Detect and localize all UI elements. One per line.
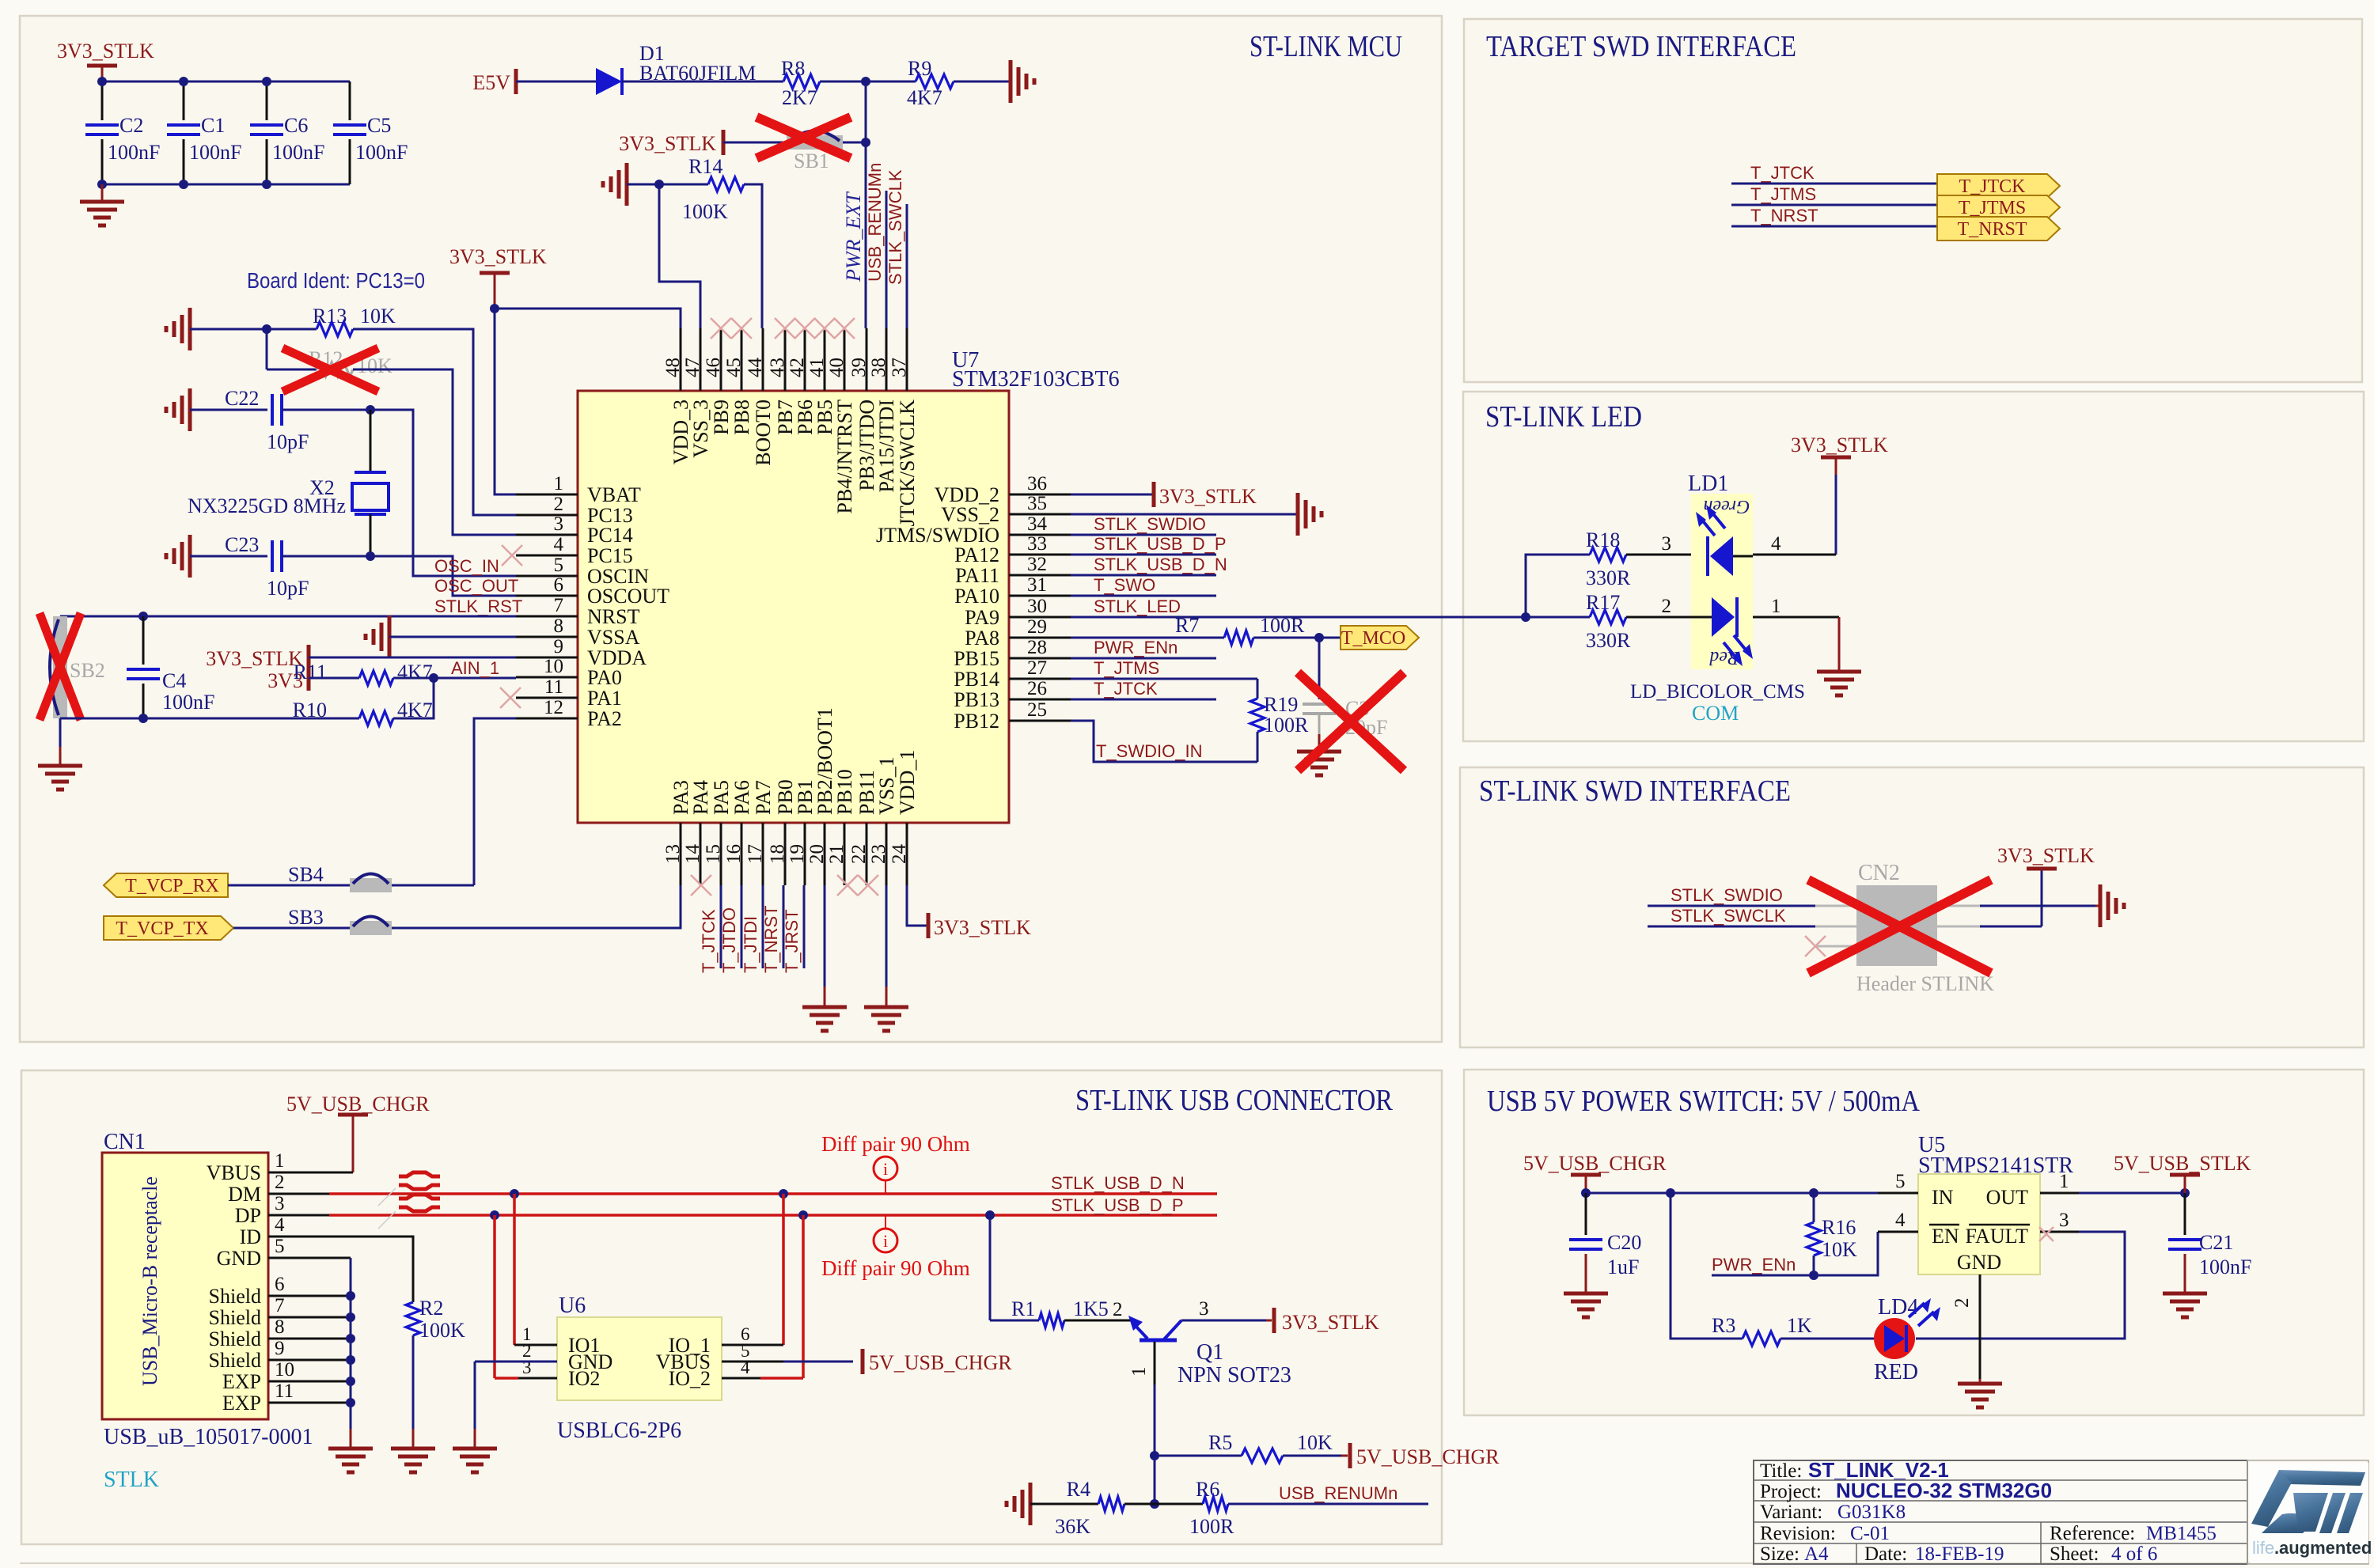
U7 pin 27 (PB14) right stub — [1009, 678, 1071, 680]
wire T_VCP_TX to SB3 — [233, 927, 350, 930]
power 3V3_STLK (LED) — [1821, 456, 1851, 460]
solder bridge SB1 (DNF) — [787, 135, 843, 150]
svg-text:24: 24 — [889, 844, 910, 865]
svg-text:330R: 330R — [1586, 629, 1631, 652]
svg-text:PWR_EXT: PWR_EXT — [842, 191, 865, 282]
wire ground to C22 — [190, 409, 267, 411]
node STLK_LED junction — [1521, 612, 1530, 622]
U6 pin3 stub — [518, 1377, 557, 1380]
power flag E5V — [514, 69, 518, 94]
svg-text:10: 10 — [544, 656, 563, 677]
svg-text:4: 4 — [275, 1214, 285, 1236]
svg-text:10K: 10K — [1297, 1431, 1333, 1454]
DNF cross over CN2 — [1808, 880, 1991, 973]
wire R14 to MCU pin 44 (BOOT0) — [744, 184, 762, 328]
node C4 top junction — [138, 612, 148, 621]
svg-text:27: 27 — [1027, 657, 1047, 679]
svg-text:STLK_USB_D_P: STLK_USB_D_P — [1051, 1195, 1184, 1215]
node R4/R6 junction — [1150, 1499, 1159, 1509]
svg-text:R11: R11 — [294, 661, 327, 684]
U7 pin 44 (BOOT0) top stub — [762, 328, 764, 391]
svg-text:11: 11 — [275, 1381, 294, 1402]
svg-text:43: 43 — [767, 358, 788, 377]
wire DM to U6 IO_1 — [782, 1194, 785, 1345]
svg-text:SB3: SB3 — [288, 906, 324, 929]
capacitor C1 100nF — [183, 81, 185, 120]
U7 pin 2 (PC13) left stub — [516, 514, 578, 517]
node R13/R12 junction — [262, 324, 271, 334]
svg-text:PC15: PC15 — [587, 544, 633, 567]
svg-text:EXP: EXP — [222, 1370, 261, 1393]
svg-text:20: 20 — [806, 844, 828, 864]
U7 pin 9 (VDDA) left stub — [516, 657, 578, 659]
power flag 3V3 — [307, 665, 311, 691]
svg-text:PB15: PB15 — [954, 647, 999, 670]
diff pair symbol on DP — [399, 1195, 440, 1211]
svg-text:10K: 10K — [1822, 1238, 1857, 1261]
section box: ST-LINK MCU — [20, 16, 1442, 1042]
svg-text:Reference:: Reference: — [2050, 1523, 2135, 1544]
wire+net label STLK_USB_D_N — [1071, 574, 1216, 577]
svg-text:FAULT: FAULT — [1966, 1225, 2029, 1248]
svg-text:2: 2 — [1951, 1298, 1973, 1309]
svg-text:R14: R14 — [688, 155, 722, 178]
svg-text:C1: C1 — [201, 114, 225, 137]
note Diff pair 90 Ohm (lower) — [885, 1215, 886, 1229]
svg-text:PA15/JTDI: PA15/JTDI — [875, 400, 898, 493]
svg-text:2: 2 — [1113, 1299, 1123, 1320]
svg-text:PB4/JNTRST: PB4/JNTRST — [833, 400, 856, 514]
wire PWR_ENn to U5 EN — [1712, 1232, 1878, 1275]
wire ground to R13 — [190, 328, 317, 331]
svg-text:35: 35 — [1027, 493, 1047, 514]
U7 pin 14 (PA4) bottom stub — [700, 823, 702, 885]
svg-text:7: 7 — [275, 1295, 285, 1316]
svg-text:NUCLEO-32 STM32G0: NUCLEO-32 STM32G0 — [1836, 1479, 2052, 1502]
wire C22 junction to MCU pin 5 (OSCIN) — [370, 410, 516, 576]
svg-text:18-FEB-19: 18-FEB-19 — [1915, 1543, 2004, 1565]
U7 pin 7 (NRST) left stub — [516, 615, 578, 618]
CN1 shield/EXP stub y=1746 — [268, 1381, 351, 1383]
svg-text:3V3_STLK: 3V3_STLK — [1159, 485, 1257, 508]
LED LD1 green diode (points left) — [1710, 536, 1733, 576]
wire R6 to USB_RENUMn — [1228, 1503, 1428, 1506]
svg-text:330R: 330R — [1586, 566, 1631, 589]
wire pin 30 STLK_LED to LED section — [1071, 616, 1590, 619]
svg-text:36: 36 — [1027, 473, 1047, 494]
svg-text:T_NRST: T_NRST — [1957, 219, 2027, 240]
svg-text:PA5: PA5 — [710, 780, 733, 815]
svg-text:46: 46 — [703, 358, 724, 377]
svg-text:10pF: 10pF — [267, 577, 309, 600]
capacitor C20 1uF — [1585, 1193, 1587, 1235]
svg-text:6: 6 — [554, 574, 564, 596]
wire pin 29 PA9 to R7 — [1071, 637, 1224, 639]
svg-text:GND: GND — [1957, 1251, 2001, 1274]
U7 pin 6 (OSCOUT) left stub — [516, 595, 578, 597]
node R14 left junction — [654, 180, 664, 189]
ground right of CN2 — [2099, 884, 2103, 927]
node R5 junction — [1150, 1451, 1159, 1460]
svg-text:36K: 36K — [1055, 1515, 1090, 1538]
wire R10 up to AIN_1 node — [393, 678, 434, 718]
svg-text:5V_USB_CHGR: 5V_USB_CHGR — [286, 1093, 430, 1115]
U7 pin 21 (PB10) bottom stub — [844, 823, 846, 885]
svg-text:39: 39 — [848, 358, 870, 377]
no-ERC mark pin 22 PB11 — [858, 875, 878, 896]
capacitor C4 100nF — [142, 616, 145, 665]
U7 pin 39 (PB3/JTDO) top stub — [866, 328, 868, 391]
svg-text:7: 7 — [554, 595, 564, 616]
svg-text:T_SWO: T_SWO — [1094, 575, 1155, 595]
svg-text:100R: 100R — [1189, 1515, 1234, 1538]
node C4 bottom junction — [138, 714, 148, 723]
U7 pin 33 (PA12) right stub — [1009, 554, 1071, 556]
page bottom frame line — [20, 1562, 2368, 1564]
svg-text:30: 30 — [1027, 596, 1047, 617]
svg-text:GND: GND — [217, 1247, 261, 1270]
U7 pin 38 (PA15/JTDI) top stub — [886, 328, 888, 391]
resistor R6 100R — [1155, 1503, 1203, 1506]
CN2 unused stub — [1815, 945, 1856, 948]
DNF cross over SB2 — [40, 613, 81, 720]
svg-text:T_VCP_RX: T_VCP_RX — [125, 876, 219, 896]
wire pin 36 VDD_2 to 3V3_STLK — [1071, 494, 1154, 496]
U7 pin 17 (PA7) bottom stub — [762, 823, 764, 885]
wire STLK_SWCLK to CN2 — [1648, 926, 1815, 928]
no-ERC mark pin 14 PA4 — [691, 875, 711, 896]
U7 pin 48 (VDD_3) top stub — [680, 328, 682, 391]
svg-text:10K: 10K — [360, 305, 396, 328]
svg-text:100nF: 100nF — [108, 141, 160, 164]
ground below LED — [1817, 670, 1861, 674]
ground below C21 — [2163, 1292, 2207, 1296]
svg-text:19: 19 — [787, 844, 808, 864]
wire C3 to ground — [1318, 734, 1321, 752]
power 5V_USB_CHGR (CN1 VBUS) — [338, 1113, 368, 1117]
svg-text:48: 48 — [662, 358, 684, 377]
svg-text:OUT: OUT — [1986, 1186, 2029, 1209]
ground left of R13 — [188, 308, 192, 350]
svg-text:PB12: PB12 — [954, 710, 999, 733]
transistor Q1 NPN SOT23 — [1140, 1339, 1177, 1343]
wire SB4 to PA2 riser — [392, 884, 474, 887]
wire SB1 to junction — [843, 142, 866, 144]
svg-text:1: 1 — [275, 1150, 285, 1172]
section box: TARGET SWD INTERFACE — [1464, 19, 2362, 382]
wire DP to R1 riser — [985, 1210, 995, 1220]
node DP/IO_2 junction — [798, 1210, 808, 1220]
svg-text:STLK_USB_D_N: STLK_USB_D_N — [1094, 555, 1227, 574]
svg-text:RED: RED — [1874, 1360, 1918, 1384]
wire 3V3 down to LED pin 4 — [1835, 475, 1837, 555]
svg-text:LD_BICOLOR_CMS: LD_BICOLOR_CMS — [1630, 681, 1805, 703]
CN1 shield/EXP stub y=1773 — [268, 1402, 351, 1404]
svg-text:3V3_STLK: 3V3_STLK — [449, 245, 547, 268]
node C23/X2 junction — [366, 551, 375, 561]
U7 pin 35 (VSS_2) right stub — [1009, 513, 1071, 516]
U5 pin 3 FAULT stub — [2040, 1231, 2079, 1233]
power 5V_USB_STLK — [2170, 1173, 2200, 1177]
wire R9 to ground — [954, 81, 1011, 83]
svg-text:12: 12 — [544, 697, 563, 718]
svg-text:3V3_STLK: 3V3_STLK — [206, 647, 303, 670]
svg-text:SB2: SB2 — [70, 659, 105, 682]
Q1 base lead down — [1154, 1342, 1156, 1384]
svg-text:Title:: Title: — [1760, 1460, 1802, 1482]
svg-text:100nF: 100nF — [355, 141, 408, 164]
U7 pin 47 (VSS_3) top stub — [700, 328, 702, 391]
svg-text:T_JTCK: T_JTCK — [1750, 163, 1815, 183]
U7 pin 26 (PB13) right stub — [1009, 699, 1071, 701]
wire R18 to LED pin 3 — [1626, 554, 1691, 556]
svg-text:C2: C2 — [119, 114, 143, 137]
svg-text:T_JTCK: T_JTCK — [1094, 679, 1158, 699]
svg-text:R10: R10 — [293, 699, 327, 722]
svg-text:R17: R17 — [1586, 591, 1620, 614]
U7 pin 4 (PC15) left stub — [516, 555, 578, 557]
svg-text:SB4: SB4 — [288, 863, 324, 886]
DNF cross over SB1 — [757, 117, 851, 158]
svg-text:R5: R5 — [1208, 1431, 1232, 1454]
svg-text:C20: C20 — [1607, 1231, 1641, 1254]
ground right of pin 35 — [1296, 493, 1300, 536]
U7 pin 29 (PA8) right stub — [1009, 637, 1071, 639]
node DM/IO_1 junction — [779, 1189, 788, 1199]
svg-text:R2: R2 — [419, 1297, 443, 1320]
wire STLK_SWDIO to CN2 — [1648, 905, 1815, 907]
section box: USB 5V POWER SWITCH — [1464, 1070, 2364, 1415]
U7 pin 1 (VBAT) left stub — [516, 494, 578, 496]
svg-text:R6: R6 — [1196, 1478, 1219, 1501]
svg-text:T_JTCK: T_JTCK — [699, 909, 719, 973]
resistor R2 100K (vertical) — [406, 1302, 420, 1335]
crystal X2 NX3225GD 8MHz — [370, 410, 372, 472]
svg-text:VBUS: VBUS — [207, 1161, 261, 1184]
wire junction up to R18 — [1526, 555, 1590, 617]
svg-text:10pF: 10pF — [267, 430, 309, 453]
wire LED pin 1 down to ground — [1753, 616, 1839, 619]
svg-text:PA2: PA2 — [587, 707, 622, 730]
resistor R5 10K — [1155, 1455, 1242, 1457]
U5 pin 1 OUT stub — [2040, 1192, 2079, 1195]
svg-text:life: life — [2252, 1538, 2274, 1558]
svg-text:Sheet:: Sheet: — [2050, 1543, 2099, 1565]
svg-text:T_JRST: T_JRST — [782, 909, 802, 973]
wire+net label T_JTMS (target swd) — [1731, 204, 1937, 206]
CN1 shield/EXP stub y=1719 — [268, 1359, 351, 1362]
power flag 3V3_STLK (Q1) — [1272, 1308, 1276, 1333]
svg-text:C5: C5 — [367, 114, 391, 137]
wire R13 to MCU pin 2 (PC13) — [353, 329, 516, 515]
svg-text:VSS_3: VSS_3 — [689, 400, 712, 458]
node DP/IO2 junction — [490, 1210, 499, 1220]
node 3V3 junction — [490, 304, 499, 313]
DNF cross over C3 — [1298, 672, 1404, 771]
svg-text:STLK_SWDIO: STLK_SWDIO — [1671, 885, 1783, 905]
wire 3V3_STLK to SB1 — [723, 142, 787, 144]
op-amp U7 STM32F103CBT6 body — [578, 391, 1009, 823]
svg-text:ID: ID — [240, 1225, 261, 1248]
wire+net label STLK_SWDIO — [1071, 534, 1216, 536]
svg-text:16: 16 — [723, 844, 745, 864]
svg-text:3V3_STLK: 3V3_STLK — [619, 132, 716, 155]
wire U5 OUT to 5V_USB_STLK — [2079, 1192, 2185, 1195]
svg-text:EXP: EXP — [222, 1392, 261, 1415]
no-ERC mark pin 4 PC15 — [502, 545, 522, 566]
svg-text:3V3_STLK: 3V3_STLK — [57, 40, 154, 62]
net flag T_VCP_RX — [104, 873, 228, 897]
svg-text:USB_RENUMn: USB_RENUMn — [865, 163, 885, 282]
wire+net label T_NRST (rotated) — [783, 885, 785, 968]
wire ground to C23 — [190, 555, 267, 558]
wire R11 to AIN_1 node — [393, 677, 516, 680]
svg-text:40: 40 — [826, 358, 848, 377]
ground left of C23 — [188, 535, 192, 578]
wire CN2 pin to ground — [1980, 905, 2095, 907]
svg-text:T_VCP_TX: T_VCP_TX — [116, 918, 208, 939]
U7 pin 20 (PB2/BOOT1) bottom stub — [824, 823, 826, 885]
diode D1 BAT60JFILM — [596, 68, 622, 95]
svg-text:E5V: E5V — [472, 71, 510, 94]
capacitor C6 100nF — [266, 81, 268, 120]
svg-text:BOOT0: BOOT0 — [752, 400, 775, 466]
svg-text:Variant:: Variant: — [1760, 1502, 1822, 1523]
svg-text:41: 41 — [806, 358, 828, 377]
svg-text:3: 3 — [1662, 533, 1672, 555]
svg-text:100R: 100R — [1260, 614, 1305, 637]
wire junction down to R12 — [266, 329, 268, 369]
svg-text:32: 32 — [1027, 554, 1047, 575]
svg-text:5V_USB_CHGR: 5V_USB_CHGR — [869, 1351, 1012, 1374]
svg-text:LD1: LD1 — [1688, 472, 1728, 496]
no-ERC marks on unused top pins — [711, 318, 731, 339]
svg-text:47: 47 — [682, 358, 703, 377]
node C22/X2 junction — [366, 405, 375, 415]
svg-text:4K7: 4K7 — [397, 661, 433, 684]
wire 5V rail to U5 IN — [1586, 1192, 1878, 1195]
svg-text:PA12: PA12 — [954, 543, 999, 566]
net label PWR_ENn — [1071, 657, 1216, 660]
svg-text:STLK_USB_D_N: STLK_USB_D_N — [1051, 1173, 1185, 1193]
svg-text:33: 33 — [1027, 533, 1047, 555]
svg-text:9: 9 — [275, 1338, 285, 1359]
svg-text:STLK: STLK — [104, 1468, 159, 1492]
ground left of R14 — [625, 163, 629, 206]
wire C23 junction to MCU pin 6 (OSCOUT) — [370, 556, 516, 596]
resistor R12 10K (DNF) — [267, 369, 317, 371]
capacitor C2 100nF — [101, 81, 104, 120]
wire to MCU pin 1 (VBAT) — [495, 309, 516, 494]
svg-text:DM: DM — [228, 1183, 261, 1206]
solder bridge SB2 (DNF) — [53, 616, 67, 718]
wire R12 to MCU pin 3 (PC14) — [353, 369, 516, 535]
svg-text:PA7: PA7 — [752, 780, 775, 815]
wire T_VCP_RX to SB4 — [228, 884, 350, 887]
U7 pin 37 (JTCK/SWCLK) top stub — [906, 328, 908, 391]
svg-text:R16: R16 — [1822, 1216, 1856, 1239]
U7 pin 11 (PA1) left stub — [516, 697, 578, 699]
header CN2 (DNF) — [1856, 885, 1937, 966]
svg-text:T_JTDI: T_JTDI — [741, 916, 760, 973]
svg-text:R19: R19 — [1264, 693, 1298, 716]
svg-text:10: 10 — [275, 1359, 294, 1381]
svg-text:USB_uB_105017-0001: USB_uB_105017-0001 — [104, 1425, 313, 1449]
svg-text:OSC_OUT: OSC_OUT — [434, 576, 518, 596]
node DM/IO1 junction — [510, 1189, 519, 1199]
wire+net label T_JTDI (rotated) — [762, 885, 764, 968]
svg-text:OSC_IN: OSC_IN — [434, 556, 499, 576]
CN1 pin 4 stub to R2 — [268, 1237, 413, 1302]
svg-text:STLK_SWCLK: STLK_SWCLK — [1671, 906, 1786, 926]
svg-text:DP: DP — [235, 1204, 261, 1227]
svg-text:Date:: Date: — [1864, 1543, 1907, 1565]
svg-text:C22: C22 — [225, 387, 259, 410]
U7 pin 22 (PB11) bottom stub — [866, 823, 868, 885]
svg-text:5V_USB_CHGR: 5V_USB_CHGR — [1356, 1445, 1500, 1468]
svg-text:4K7: 4K7 — [907, 86, 942, 109]
svg-text:T_SWDIO_IN: T_SWDIO_IN — [1096, 741, 1202, 761]
U7 pin 45 (PB8) top stub — [741, 328, 743, 391]
svg-text:3: 3 — [554, 513, 564, 535]
wire MCU pin 12 (PA2) down to SB4 — [474, 718, 516, 885]
svg-text:25: 25 — [1027, 699, 1047, 721]
svg-text:1: 1 — [554, 473, 564, 494]
svg-text:Diff pair 90 Ohm: Diff pair 90 Ohm — [821, 1132, 970, 1156]
wire NRST net to MCU pin 7 — [60, 615, 516, 618]
svg-text:i: i — [883, 1159, 888, 1179]
svg-text:PB8: PB8 — [730, 400, 753, 435]
svg-text:U6: U6 — [559, 1293, 586, 1318]
svg-text:COM: COM — [1692, 702, 1739, 725]
svg-text:Size:: Size: — [1760, 1543, 1799, 1565]
svg-text:PB13: PB13 — [954, 688, 999, 711]
svg-text:3: 3 — [2059, 1210, 2069, 1231]
svg-text:2: 2 — [554, 494, 564, 515]
wire+net label T_JTCK (rotated) — [720, 885, 722, 968]
power flag 3V3_STLK (VDD_2) — [1152, 482, 1156, 507]
svg-text:IN: IN — [1932, 1186, 1954, 1209]
power flag 5V_USB_CHGR (U6) — [861, 1349, 865, 1374]
svg-text:11: 11 — [544, 676, 563, 698]
wire U5 FAULT to LD4 — [1916, 1232, 2125, 1339]
svg-text:1: 1 — [1128, 1367, 1150, 1377]
U7 pin 30 (PA9) right stub — [1009, 616, 1071, 619]
svg-text:100R: 100R — [1264, 714, 1309, 737]
svg-text:3V3_STLK: 3V3_STLK — [934, 916, 1031, 939]
ESD chip U6 USBLC6-2P6 body — [557, 1317, 722, 1400]
svg-text:23: 23 — [868, 844, 889, 864]
svg-text:STLK_LED: STLK_LED — [1094, 597, 1181, 616]
ground right of R9 — [1009, 60, 1013, 103]
svg-text:NRST: NRST — [587, 605, 640, 628]
power flag 3V3_STLK at SB1 — [722, 130, 726, 155]
svg-text:1: 1 — [2059, 1171, 2069, 1192]
power 3V3_STLK (MCU VBAT/VDD_3) — [480, 271, 510, 275]
svg-text:Project:: Project: — [1760, 1481, 1822, 1502]
svg-text:37: 37 — [889, 358, 910, 377]
wire junction to R9 — [866, 81, 916, 83]
svg-text:SB1: SB1 — [794, 150, 829, 172]
wire R17 to LED pin 2 — [1626, 616, 1691, 619]
section box: ST-LINK SWD INTERFACE — [1460, 767, 2364, 1047]
U7 pin 16 (PA6) bottom stub — [741, 823, 743, 885]
wire+net label T_NRST (target swd) — [1731, 225, 1937, 228]
node R8/R9 junction — [861, 77, 870, 86]
ground below C20 — [1564, 1292, 1608, 1296]
U7 pin 23 (VSS_1) bottom stub — [886, 823, 888, 885]
U7 pin 12 (PA2) left stub — [516, 718, 578, 720]
